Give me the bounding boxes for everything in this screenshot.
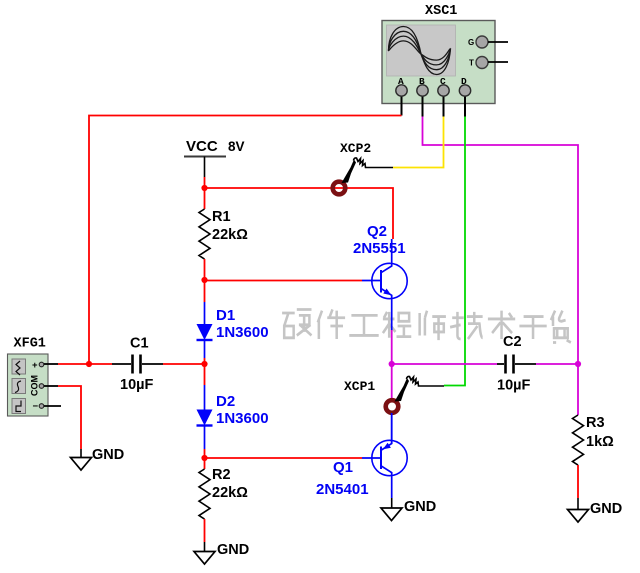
node output junction <box>389 361 395 367</box>
transistor Q2 <box>353 223 407 330</box>
ground below Q1 <box>381 499 436 521</box>
oscilloscope terminal D <box>459 76 470 117</box>
wire scope A to input node (red) <box>89 116 402 365</box>
wire Q2 emitter to output node (magenta) <box>391 330 393 364</box>
svg-text:D1: D1 <box>216 307 235 324</box>
svg-text:R1: R1 <box>212 209 231 225</box>
svg-text:10µF: 10µF <box>120 377 153 393</box>
wire output node down to XCP1 (magenta) <box>391 364 393 399</box>
watermark text 硬件工程师技术干货 (drawn strokes) <box>282 309 571 342</box>
XFG1 terminal - <box>33 401 44 412</box>
wire junction to Q1 base (red) <box>205 457 363 459</box>
svg-text:GND: GND <box>217 542 249 558</box>
svg-text:10µF: 10µF <box>497 378 530 394</box>
node input junction <box>86 361 92 367</box>
ground below XFG1 <box>71 447 125 470</box>
svg-text:2N5401: 2N5401 <box>316 481 369 498</box>
power VCC 8V <box>184 138 245 188</box>
svg-text:2N5551: 2N5551 <box>353 240 406 257</box>
wire rail down to R3 (magenta) <box>577 364 579 415</box>
svg-text:22kΩ: 22kΩ <box>212 227 248 243</box>
svg-text:XCP2: XCP2 <box>340 141 371 156</box>
wire scope C to XCP2 (yellow) <box>393 117 444 168</box>
svg-text:Q2: Q2 <box>367 223 387 240</box>
svg-text:1kΩ: 1kΩ <box>586 434 614 450</box>
svg-text:GND: GND <box>590 501 622 517</box>
wire scope D to XCP1 (green) <box>444 117 465 386</box>
oscilloscope knob T <box>469 57 508 69</box>
svg-text:−: − <box>33 401 39 412</box>
wire scope B vertical+horizontal to right rail (magenta) <box>423 117 579 365</box>
wire junction to Q2 base (red) <box>205 280 363 282</box>
XFG1 terminal + <box>32 360 44 371</box>
ground below R3 <box>568 501 623 522</box>
resistor R2 <box>199 458 248 551</box>
XFG1 terminal COM <box>30 375 44 396</box>
diode D2 <box>197 364 269 458</box>
oscilloscope terminal A <box>396 76 407 116</box>
svg-text:R2: R2 <box>212 467 231 483</box>
ground below R2 <box>194 542 249 564</box>
oscilloscope XSC1 body <box>382 21 495 104</box>
svg-text:COM: COM <box>30 375 40 396</box>
svg-text:D2: D2 <box>216 393 235 410</box>
node D2-R2-Q1base junction <box>201 455 207 461</box>
svg-text:T: T <box>469 59 474 68</box>
transistor Q1 <box>316 414 407 498</box>
wire C2 to right rail (magenta) <box>536 363 578 365</box>
wire XFG1 plus to C1 (black lead + red wire) <box>44 363 112 365</box>
oscilloscope terminal C <box>438 76 449 117</box>
svg-text:Q1: Q1 <box>333 459 353 476</box>
wire Q1 collector to ground <box>391 498 393 508</box>
svg-text:XSC1: XSC1 <box>425 4 457 19</box>
oscilloscope XSC1 screen <box>387 25 456 76</box>
capacitor C2 <box>497 334 536 394</box>
svg-text:22kΩ: 22kΩ <box>212 485 248 501</box>
wire XFG1 minus stub <box>44 405 61 407</box>
wire XFG1 COM to GND (red) <box>44 386 81 457</box>
node diode midpoint junction <box>201 361 207 367</box>
wire output node to C2 (magenta) <box>392 363 497 365</box>
svg-text:C2: C2 <box>503 334 522 350</box>
wire XCP1 to Q1 emitter (blue lead) <box>391 413 393 444</box>
wire VCC to Q2 collector (red) <box>205 188 394 239</box>
svg-text:C1: C1 <box>130 336 149 352</box>
resistor R1 <box>199 188 248 280</box>
svg-text:GND: GND <box>404 499 436 515</box>
svg-text:GND: GND <box>92 447 124 463</box>
current probe XCP2 <box>333 141 393 194</box>
svg-text:XFG1: XFG1 <box>14 337 46 352</box>
current probe XCP1 <box>344 376 444 412</box>
svg-text:1N3600: 1N3600 <box>216 324 269 341</box>
function generator XFG1 body <box>8 354 49 416</box>
svg-text:+: + <box>32 360 38 371</box>
capacitor C1 <box>112 336 163 394</box>
svg-text:G: G <box>468 38 474 47</box>
resistor R3 <box>573 415 615 509</box>
wire C1 to diode node (red) <box>163 363 205 365</box>
svg-text:XCP1: XCP1 <box>344 379 375 394</box>
svg-text:8V: 8V <box>228 139 245 154</box>
svg-text:VCC: VCC <box>186 138 218 155</box>
node right rail junction <box>575 361 581 367</box>
svg-text:1N3600: 1N3600 <box>216 410 269 427</box>
oscilloscope knob G <box>468 36 508 48</box>
svg-text:R3: R3 <box>586 415 605 431</box>
node R1-D1-Q2base junction <box>201 277 207 283</box>
diode D1 <box>197 280 269 364</box>
node VCC junction <box>201 185 207 191</box>
oscilloscope terminal B <box>417 76 428 117</box>
